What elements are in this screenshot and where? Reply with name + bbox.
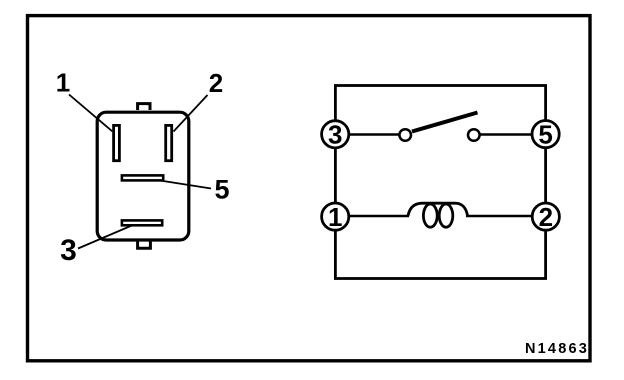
pin 1 slot (114, 125, 120, 160)
wire coil to terminal 2 (466, 215, 546, 217)
relay connector body (97, 112, 189, 240)
svg-text:1: 1 (328, 202, 342, 232)
terminal 1 (322, 203, 349, 230)
svg-text:1: 1 (56, 68, 70, 98)
leader wire 1 (69, 95, 113, 132)
wire terminal 3 to switch contact (335, 133, 399, 135)
svg-text:3: 3 (60, 234, 77, 267)
svg-text:5: 5 (214, 175, 229, 205)
switch contact left (399, 129, 411, 141)
switch contact right (468, 129, 480, 141)
switch arm (412, 113, 478, 132)
leader wire 2 (174, 95, 208, 132)
svg-text:N14863: N14863 (525, 341, 589, 357)
pin 2 slot (166, 125, 172, 160)
leader wire 3 (78, 225, 133, 249)
leader wire 5 (160, 181, 211, 189)
svg-text:2: 2 (539, 202, 553, 232)
bottom tab (138, 242, 151, 249)
svg-text:5: 5 (538, 119, 552, 149)
svg-text:2: 2 (209, 68, 223, 98)
svg-text:3: 3 (328, 120, 342, 150)
terminal 2 (532, 203, 559, 230)
relay schematic box (335, 86, 545, 279)
relay coil (408, 203, 468, 216)
pin 5 slot (122, 175, 163, 180)
terminal 3 (322, 121, 349, 148)
wire terminal 1 to coil (335, 215, 409, 217)
wire switch contact to terminal 5 (480, 133, 546, 135)
top tab (138, 104, 150, 110)
terminal 5 (532, 121, 559, 148)
pin 3 slot (122, 220, 162, 225)
